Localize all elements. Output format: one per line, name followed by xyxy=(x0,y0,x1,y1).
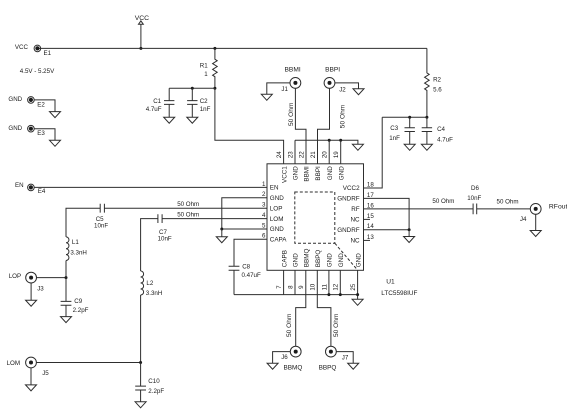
connector J4 xyxy=(530,204,541,215)
svg-text:16: 16 xyxy=(367,202,374,209)
wire pin 2 GND to drop xyxy=(222,198,267,229)
junction VCC drop xyxy=(139,47,142,50)
svg-text:BBPI: BBPI xyxy=(315,166,322,181)
wire J5 shell gnd stem xyxy=(30,368,32,385)
svg-text:5: 5 xyxy=(262,222,266,229)
capacitor C4 xyxy=(422,117,453,144)
svg-text:GND: GND xyxy=(293,166,300,180)
wire LOP line pin 3 to C5 xyxy=(104,207,267,209)
svg-text:J4: J4 xyxy=(520,216,527,223)
turret E3 xyxy=(28,125,35,132)
wire pin 5 GND xyxy=(222,228,267,230)
wire VCC symbol drop xyxy=(140,24,142,48)
svg-text:C10: C10 xyxy=(148,378,160,385)
svg-text:EN: EN xyxy=(270,185,279,192)
junction C2 top xyxy=(191,87,194,90)
svg-text:VCC: VCC xyxy=(15,44,29,51)
ground J6 xyxy=(267,363,278,369)
capacitor C8 xyxy=(229,264,261,295)
svg-text:4.5V - 5.25V: 4.5V - 5.25V xyxy=(20,68,55,75)
wire pin 9 to J6 xyxy=(296,270,306,346)
wire gnd stem xyxy=(221,229,223,237)
capacitor C3 xyxy=(389,117,415,144)
svg-text:21: 21 xyxy=(310,151,317,158)
svg-text:CAPB: CAPB xyxy=(281,250,288,267)
svg-text:50 Ohm: 50 Ohm xyxy=(333,313,340,337)
svg-text:E3: E3 xyxy=(37,130,45,137)
wire CAPA pin 6 to C8 xyxy=(234,239,267,266)
wire C5 to L1 corner xyxy=(66,208,100,237)
svg-text:20: 20 xyxy=(322,151,329,158)
svg-text:L1: L1 xyxy=(72,239,79,246)
ground J3 xyxy=(26,300,37,306)
svg-text:10nF: 10nF xyxy=(94,223,108,230)
wire J1 shell to ground xyxy=(267,83,290,94)
svg-text:GND: GND xyxy=(8,125,22,132)
wire pin 25 lead xyxy=(357,270,359,299)
ground J4 xyxy=(530,231,541,237)
svg-text:NC: NC xyxy=(350,238,360,245)
svg-text:4.7uF: 4.7uF xyxy=(437,137,453,144)
svg-text:RF: RF xyxy=(351,206,360,213)
capacitor C2 xyxy=(187,88,210,117)
connector J6 xyxy=(290,346,301,357)
svg-text:LOP: LOP xyxy=(9,273,21,280)
svg-text:1: 1 xyxy=(204,71,208,78)
svg-text:6: 6 xyxy=(262,233,266,240)
wire pin 17 to ground drop xyxy=(364,198,410,229)
turret E1 xyxy=(34,45,41,52)
wire C3 C4 bus xyxy=(382,116,427,118)
junction LOP node xyxy=(65,276,68,279)
svg-text:RFout: RFout xyxy=(549,203,567,210)
svg-text:18: 18 xyxy=(367,181,374,188)
wire L2 bottom xyxy=(140,295,142,363)
svg-text:3: 3 xyxy=(262,202,266,209)
junction pin 12 xyxy=(339,293,342,296)
junction LOM node xyxy=(139,361,142,364)
svg-text:8: 8 xyxy=(287,285,294,289)
wire pin 7 lead xyxy=(283,270,285,294)
svg-text:BBPQ: BBPQ xyxy=(315,250,322,268)
ground top bus xyxy=(352,144,363,150)
svg-text:GND: GND xyxy=(338,166,345,180)
wire RF line left of D6 xyxy=(364,208,474,210)
inductor L1 xyxy=(66,237,87,261)
capacitor C7 xyxy=(158,214,172,242)
wire J2 to pin 21 xyxy=(318,88,330,164)
junction pin2/5 gnd xyxy=(220,228,223,231)
wire VCC2 branch to pin 18 xyxy=(364,117,383,188)
wire J5 to node xyxy=(36,362,140,364)
svg-text:GND: GND xyxy=(270,195,284,202)
connector J7 xyxy=(326,346,337,357)
wire pin 8 lead xyxy=(294,270,296,294)
ground C1 xyxy=(164,117,175,123)
svg-text:9: 9 xyxy=(298,285,305,289)
wire bottom GND bus xyxy=(234,294,358,296)
wire pin 15 NC stub xyxy=(364,218,371,220)
junction C3 top xyxy=(408,116,411,119)
ground J1 xyxy=(261,94,272,100)
svg-text:LOP: LOP xyxy=(270,205,283,212)
svg-text:GND: GND xyxy=(355,253,362,267)
wire RF line right of D6 xyxy=(477,208,531,210)
ground J5 xyxy=(26,385,37,391)
svg-text:E2: E2 xyxy=(37,101,45,108)
ground C2 xyxy=(187,117,198,123)
svg-text:GNDRF: GNDRF xyxy=(337,196,360,203)
connector J3 xyxy=(26,272,37,283)
wire top GND bus xyxy=(295,140,358,144)
svg-text:7: 7 xyxy=(276,285,283,289)
svg-text:1nF: 1nF xyxy=(389,135,400,142)
wire VCC rail xyxy=(37,47,427,49)
wire pin 14 GNDRF xyxy=(364,229,410,231)
wire C7 to L2 corner xyxy=(141,219,158,271)
resistor R1 xyxy=(200,48,217,88)
ground C9 xyxy=(61,317,72,323)
svg-text:12: 12 xyxy=(333,283,340,290)
svg-text:BBMQ: BBMQ xyxy=(284,364,303,371)
capacitor C5 xyxy=(94,204,108,230)
svg-text:GND: GND xyxy=(327,253,334,267)
turret E4 xyxy=(28,184,35,191)
svg-text:C8: C8 xyxy=(242,264,250,271)
svg-text:50 Ohm: 50 Ohm xyxy=(497,198,519,205)
svg-text:1nF: 1nF xyxy=(200,106,211,113)
svg-text:GND: GND xyxy=(8,96,22,103)
svg-text:11: 11 xyxy=(321,283,328,290)
connector J1 xyxy=(290,78,301,89)
svg-text:22: 22 xyxy=(298,151,305,158)
svg-text:50 Ohm: 50 Ohm xyxy=(288,102,295,126)
ground E3 xyxy=(50,140,61,146)
wire J7 shell to ground xyxy=(336,352,353,364)
exposed pad dashed box xyxy=(295,192,335,243)
wire pin 19 lead xyxy=(340,140,342,164)
junction R1 bottom xyxy=(213,87,216,90)
turret E2 xyxy=(28,97,35,104)
svg-text:C9: C9 xyxy=(74,298,82,305)
ground C10 xyxy=(135,402,146,408)
svg-text:25: 25 xyxy=(350,283,357,290)
op-amp U1 (IC body LTC5598IUF) xyxy=(267,164,364,270)
svg-text:VCC1: VCC1 xyxy=(281,166,288,183)
junction pin14/17 xyxy=(408,228,411,231)
svg-text:17: 17 xyxy=(367,192,374,199)
wire pin 23 lead xyxy=(294,140,296,164)
junction C4 top xyxy=(425,116,428,119)
svg-text:C1: C1 xyxy=(153,98,161,105)
wire pin 13 NC stub xyxy=(364,239,371,241)
svg-text:BBPI: BBPI xyxy=(325,66,340,73)
svg-text:50 Ohm: 50 Ohm xyxy=(340,104,347,128)
svg-text:4: 4 xyxy=(262,212,266,219)
svg-text:1: 1 xyxy=(262,181,266,188)
svg-text:J3: J3 xyxy=(37,285,44,292)
resistor R2 xyxy=(425,48,443,117)
svg-text:GNDRF: GNDRF xyxy=(337,227,360,234)
svg-text:13: 13 xyxy=(367,234,374,241)
svg-text:50 Ohm: 50 Ohm xyxy=(286,313,293,337)
svg-text:LOM: LOM xyxy=(270,216,284,223)
svg-text:NC: NC xyxy=(350,217,360,224)
wire R1 net to pin 24 xyxy=(215,88,284,164)
wire L1 bottom xyxy=(65,261,67,278)
capacitor C10 xyxy=(135,363,164,402)
svg-text:C3: C3 xyxy=(390,125,398,132)
wire pin 12 lead xyxy=(339,270,341,294)
node VCC (power symbol top) xyxy=(135,15,149,24)
svg-text:10: 10 xyxy=(310,283,317,290)
ground pins 17/14 xyxy=(404,237,415,243)
svg-text:15: 15 xyxy=(367,213,374,220)
wire gnd stem xyxy=(408,230,410,237)
junction pin 19 xyxy=(339,139,342,142)
svg-text:GND: GND xyxy=(327,166,334,180)
svg-text:E4: E4 xyxy=(38,188,46,195)
svg-text:LTC5598IUF: LTC5598IUF xyxy=(381,290,417,297)
ground J2 xyxy=(353,89,364,95)
svg-text:C4: C4 xyxy=(437,126,445,133)
svg-text:2.2pF: 2.2pF xyxy=(148,388,164,395)
svg-text:LOM: LOM xyxy=(7,360,20,367)
svg-text:10nF: 10nF xyxy=(467,195,481,202)
svg-text:C2: C2 xyxy=(200,98,208,105)
capacitor C1 xyxy=(146,88,175,117)
wire J1 to pin 22 xyxy=(295,88,306,164)
junction pin 25 xyxy=(356,293,359,296)
svg-text:50 Ohm: 50 Ohm xyxy=(432,198,454,205)
svg-text:BBMQ: BBMQ xyxy=(304,249,311,268)
svg-text:R2: R2 xyxy=(433,77,441,84)
capacitor C9 xyxy=(61,278,89,317)
ground J7 xyxy=(348,363,359,369)
inductor L2 xyxy=(141,271,163,297)
wire J6 shell to ground xyxy=(273,352,291,364)
svg-text:GND: GND xyxy=(293,253,300,267)
svg-text:50 Ohm: 50 Ohm xyxy=(177,212,199,219)
wire pin 20 lead xyxy=(328,140,330,164)
ground pin 25 xyxy=(352,299,363,305)
svg-text:VCC2: VCC2 xyxy=(343,185,360,192)
connector J2 xyxy=(324,78,335,89)
svg-text:J7: J7 xyxy=(342,355,349,362)
wire J3 shell gnd stem xyxy=(30,283,32,300)
svg-text:R1: R1 xyxy=(200,62,208,69)
svg-text:EN: EN xyxy=(15,182,24,189)
svg-text:5.6: 5.6 xyxy=(433,87,442,94)
wire pin 11 lead xyxy=(328,270,330,294)
svg-text:D6: D6 xyxy=(471,185,479,192)
svg-text:J5: J5 xyxy=(42,370,49,377)
svg-text:L2: L2 xyxy=(146,280,153,287)
svg-text:2: 2 xyxy=(262,191,266,198)
svg-text:24: 24 xyxy=(276,151,283,158)
wire pin 10 to J7 xyxy=(317,270,331,346)
svg-text:E1: E1 xyxy=(44,50,52,57)
svg-text:19: 19 xyxy=(333,151,340,158)
svg-text:50 Ohm: 50 Ohm xyxy=(177,201,199,208)
wire E2 to ground xyxy=(34,100,55,112)
svg-text:CAPA: CAPA xyxy=(270,237,287,244)
svg-text:23: 23 xyxy=(287,151,294,158)
junction R1 top xyxy=(213,47,216,50)
wire J2 shell to ground xyxy=(335,83,359,89)
wire C1 C2 bus xyxy=(169,87,215,89)
wire E3 to ground xyxy=(34,129,55,141)
dashed lead pin 25 xyxy=(335,243,357,269)
svg-text:BBMI: BBMI xyxy=(304,166,311,182)
svg-text:3.3nH: 3.3nH xyxy=(70,250,87,257)
ground C3 xyxy=(404,144,415,150)
svg-text:J6: J6 xyxy=(281,354,288,361)
svg-text:14: 14 xyxy=(367,223,374,230)
wire EN net to pin 1 xyxy=(34,186,267,188)
connector J5 xyxy=(26,357,37,368)
svg-text:BBMI: BBMI xyxy=(285,66,301,73)
svg-text:4.7uF: 4.7uF xyxy=(146,106,162,113)
capacitor D6 xyxy=(467,185,481,214)
svg-text:GND: GND xyxy=(270,226,284,233)
svg-text:J2: J2 xyxy=(339,87,346,94)
svg-text:GND: GND xyxy=(338,253,345,267)
svg-text:U1: U1 xyxy=(386,278,395,285)
ground pins 2/5 xyxy=(216,237,227,243)
svg-text:2.2pF: 2.2pF xyxy=(73,307,89,314)
ground C4 xyxy=(421,144,432,150)
wire J4 to ground xyxy=(535,214,537,230)
svg-text:3.3nH: 3.3nH xyxy=(146,290,163,297)
wire J3 to node xyxy=(37,277,67,279)
ground E2 xyxy=(50,112,61,118)
svg-text:VCC: VCC xyxy=(135,15,149,22)
wire LOM line pin 4 to C7 xyxy=(162,218,267,220)
junction pin 20 xyxy=(328,139,331,142)
svg-text:10nF: 10nF xyxy=(158,236,172,243)
svg-text:J1: J1 xyxy=(281,86,288,93)
junction pin 11 xyxy=(327,293,330,296)
svg-text:BBPQ: BBPQ xyxy=(319,364,337,371)
svg-text:0.47uF: 0.47uF xyxy=(242,272,261,279)
